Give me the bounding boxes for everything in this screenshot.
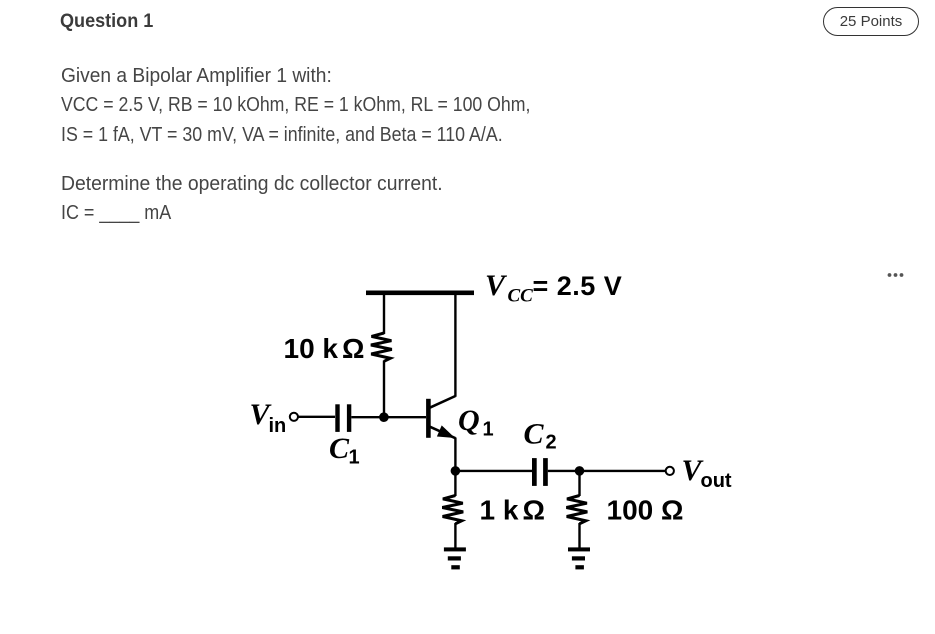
C2 label [524,418,557,454]
Vin terminal [290,413,298,421]
C1 label [329,432,360,469]
VCC label [485,269,622,307]
svg-text:Q: Q [458,404,480,437]
resistor RB 10 kOhm zigzag [371,333,392,361]
svg-text:CC: CC [508,286,534,307]
emitter arrow [437,425,455,438]
capacitor C1 [335,404,351,432]
svg-text:1: 1 [349,447,360,469]
svg-text:1: 1 [483,419,494,441]
base bar [426,399,431,438]
wire C1 to base node [351,416,426,418]
Vin label [250,398,287,437]
Vout terminal [666,467,674,475]
svg-text:out: out [701,470,732,492]
ground (RL) [568,547,590,569]
capacitor C2 [532,458,548,486]
Q1 label [458,404,494,441]
svg-text:= 2.5 V: = 2.5 V [533,271,623,301]
svg-text:V: V [485,269,508,302]
transistor Q1 [426,396,455,438]
emitter wire to emitter node [454,438,456,472]
collector wire to rail [454,293,456,397]
options menu dots [888,273,904,277]
emitter diagonal [430,427,456,439]
svg-text:1 kΩ: 1 kΩ [480,494,545,525]
wire RE to ground [454,523,456,548]
resistor RL 100 Ohm zigzag [566,496,587,524]
wire RL to ground [578,523,580,548]
collector diagonal [430,396,456,408]
wire resistor RB to base node [383,361,385,418]
wire Vin terminal to capacitor C1 [298,416,335,418]
wire C2 to output node [548,470,580,472]
resistor RE 1 kOhm zigzag [442,496,463,524]
svg-text:C: C [329,432,350,465]
wire emitter node to capacitor C2 [455,470,532,472]
output node junction [575,466,585,476]
ground (RE) [444,547,466,569]
wire output node to Vout terminal [580,470,666,472]
svg-text:C: C [524,418,545,451]
wire emitter node to resistor RE [454,471,456,496]
Vout label [682,454,732,492]
emitter node junction [451,466,461,476]
svg-text:10 kΩ: 10 kΩ [284,333,365,364]
wire output node to resistor RL [578,471,580,496]
svg-text:100 Ω: 100 Ω [607,494,684,525]
wire rail to resistor RB [383,293,385,334]
svg-text:2: 2 [546,432,557,454]
svg-text:in: in [269,415,287,437]
base node junction [379,412,389,422]
VCC supply rail [366,291,474,296]
